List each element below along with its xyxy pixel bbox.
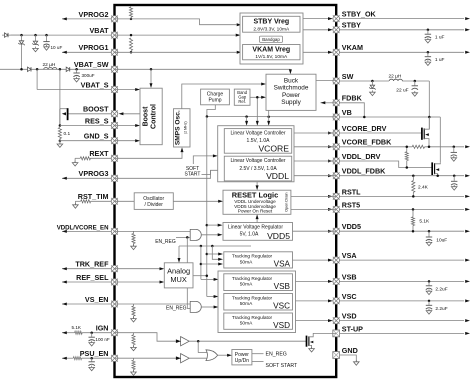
svg-text:1 uF: 1 uF xyxy=(435,57,445,63)
resistor REXT xyxy=(80,157,90,160)
resistor 5.1K pullup xyxy=(412,209,414,216)
arrow into buffer U4 xyxy=(176,356,181,360)
node dot 2.4K xyxy=(412,174,415,177)
svg-text:PSU_EN: PSU_EN xyxy=(80,349,109,358)
pin TRK_REF xyxy=(111,265,118,272)
svg-text:VSD: VSD xyxy=(273,321,290,330)
arrow VPROG3 xyxy=(62,177,67,180)
wire VKAM xyxy=(336,51,464,53)
wire VPROG2 input xyxy=(62,18,115,20)
arrow ST-UP xyxy=(465,332,470,335)
ground VDDL cap xyxy=(453,185,455,187)
pin VSB xyxy=(333,278,340,285)
wire PSU_EN input xyxy=(62,357,73,359)
node dot vdd5 a xyxy=(412,230,415,233)
pin VBAT_S xyxy=(111,86,118,93)
svg-text:ST-UP: ST-UP xyxy=(342,324,363,333)
resistor VPROG1 pullup xyxy=(130,34,133,37)
arrow into Boost Control top xyxy=(150,83,153,88)
svg-text:RST5: RST5 xyxy=(342,200,360,209)
arrow VCORE out xyxy=(465,145,470,148)
capacitor 2.2uF VSB xyxy=(428,281,430,285)
svg-text:TRK_REF: TRK_REF xyxy=(75,260,109,269)
pin RES_S xyxy=(111,122,118,129)
wire rail to vsc end xyxy=(207,296,214,298)
svg-text:VDD5: VDD5 xyxy=(267,231,290,241)
svg-text:Ref.: Ref. xyxy=(238,99,246,104)
box tracking outer xyxy=(218,271,296,333)
transistor Q2 channel xyxy=(423,128,425,139)
pin ST-UP xyxy=(333,330,340,337)
wire VDDL drain rail xyxy=(439,117,441,162)
wire RST_TIM xyxy=(91,200,115,202)
wire VSD xyxy=(336,320,464,322)
svg-text:SOFT START: SOFT START xyxy=(266,363,299,369)
wire VS_EN internal xyxy=(115,303,191,305)
wire VSC xyxy=(336,300,464,302)
svg-text:Linear Voltage Regulator: Linear Voltage Regulator xyxy=(228,225,283,231)
pin VDD5 xyxy=(333,228,340,235)
wire xyxy=(59,139,61,145)
arrow GND_S into boost xyxy=(135,139,140,142)
svg-text:22 µH: 22 µH xyxy=(389,74,402,80)
resistor 5.1K IGN xyxy=(75,331,83,334)
wire Q3 source xyxy=(435,174,438,176)
box VSA tracking xyxy=(224,252,293,268)
svg-text:2.8V/3.3V, 10mA: 2.8V/3.3V, 10mA xyxy=(253,26,290,32)
wire RST5 xyxy=(336,208,464,210)
wire GND_S internal xyxy=(115,140,136,142)
wire REXT internal xyxy=(115,152,183,159)
wire osc to reset xyxy=(173,200,218,202)
arrow into reset top xyxy=(256,185,259,190)
pin SW xyxy=(333,78,340,85)
transistor Q3 channel xyxy=(434,163,436,174)
svg-text:2.2uF: 2.2uF xyxy=(435,306,447,312)
divider resistor xyxy=(406,147,408,152)
wire VBAT input xyxy=(2,34,22,36)
pin VSD xyxy=(333,317,340,324)
arrow into STBY Vreg xyxy=(237,23,242,26)
pin VSC xyxy=(333,298,340,305)
transistor Q4 channel xyxy=(308,336,310,346)
svg-text:SMPS Osc.: SMPS Osc. xyxy=(175,110,182,145)
svg-text:Up/Dn: Up/Dn xyxy=(235,358,249,364)
wire VSB out xyxy=(293,280,330,282)
inductor L1 xyxy=(44,67,57,69)
sense resistor 0.1 xyxy=(58,128,61,139)
svg-text:VDDL/VCORE_EN: VDDL/VCORE_EN xyxy=(57,224,109,231)
svg-text:2.2uF: 2.2uF xyxy=(435,286,447,292)
wire bandgap to buck xyxy=(250,96,262,98)
svg-text:VSC: VSC xyxy=(273,302,290,311)
svg-text:GND_S: GND_S xyxy=(84,132,109,141)
wire Q3 drain xyxy=(435,162,441,164)
transistor Q2 gate bar xyxy=(421,128,423,140)
pin GND xyxy=(333,352,340,359)
transistor Q1 channel xyxy=(59,109,61,126)
wire GND_S xyxy=(60,140,115,142)
wire BOOST internal xyxy=(122,113,141,115)
svg-text:VPROG3: VPROG3 xyxy=(79,169,109,178)
wire VPROG3 input xyxy=(62,177,115,179)
wire dist to VSA2 xyxy=(212,246,218,259)
wire VPROG1 internal xyxy=(115,51,237,53)
wire controllers to reset xyxy=(256,182,258,186)
arrow FDBK into buck xyxy=(321,101,326,104)
AND gate U2 xyxy=(190,301,201,312)
svg-text:VBAT_S: VBAT_S xyxy=(81,80,109,89)
svg-text:Power On Reset: Power On Reset xyxy=(238,209,273,214)
ground for D3 xyxy=(35,47,37,49)
capacitor VDDL out xyxy=(453,176,455,181)
box STBY Vreg xyxy=(243,16,300,32)
arrow rail into VDD5 box xyxy=(218,224,223,227)
wire REF_SEL internal xyxy=(115,281,160,283)
svg-text:Power: Power xyxy=(282,92,301,99)
AND gate U1 xyxy=(190,229,201,240)
wire VSC out xyxy=(293,300,330,302)
arrow VKAM xyxy=(465,51,470,54)
node dot vsc xyxy=(428,300,431,303)
wire VSA xyxy=(336,259,464,261)
svg-text:VSA: VSA xyxy=(274,260,291,269)
ground psu pulldown xyxy=(133,370,135,372)
wire VKAM Vreg to VKAM xyxy=(300,51,329,53)
wire VDDL/VCORE_EN input xyxy=(62,230,115,232)
wire GND xyxy=(336,355,356,362)
wire VDD5 xyxy=(336,230,464,232)
svg-text:EN_REG: EN_REG xyxy=(266,352,287,358)
wire VS_EN input xyxy=(62,303,115,305)
arrow STBY_OK xyxy=(465,17,470,20)
arrow VDDL out xyxy=(465,174,470,177)
wire rail to vsa xyxy=(207,253,219,255)
transistor Q4 arrow xyxy=(310,341,313,344)
pin VPROG2 xyxy=(111,16,118,23)
pin RSTL xyxy=(333,193,340,200)
ground GND pin xyxy=(355,360,357,362)
svg-text:10 uF: 10 uF xyxy=(51,45,63,50)
resistor RST_TIM xyxy=(81,200,91,203)
zener D2 xyxy=(19,41,23,44)
buffer U3 xyxy=(181,337,190,346)
svg-text:Tracking Regulator: Tracking Regulator xyxy=(232,254,273,260)
resistor VPROG2 pullup xyxy=(129,7,132,17)
pin GND_S xyxy=(111,137,118,144)
diode D4 xyxy=(28,67,32,71)
wire buffer1 out xyxy=(189,340,306,342)
arrow gate1 into VDD5 box xyxy=(218,233,223,236)
svg-text:5.1K: 5.1K xyxy=(419,219,430,225)
wire VDD5 out xyxy=(293,230,337,232)
svg-text:300uF: 300uF xyxy=(82,73,95,78)
wire VSD out xyxy=(293,320,330,322)
wire RST5 out xyxy=(291,208,336,210)
wire FDBK xyxy=(336,103,364,117)
box SMPS Osc xyxy=(174,109,191,147)
resistor PSU_EN xyxy=(73,357,81,360)
arrow at VSC pin xyxy=(328,299,333,302)
arrow REF_SEL xyxy=(62,281,67,284)
wire xyxy=(75,200,80,202)
transistor Q3 arrow xyxy=(436,168,440,171)
arrow BOOST out xyxy=(119,112,124,115)
wire stub xyxy=(46,35,48,42)
pin VBAT xyxy=(111,32,118,39)
node dot rail vdd5 xyxy=(206,224,209,227)
wire stub xyxy=(35,35,37,41)
box VSD tracking xyxy=(224,313,293,329)
node dot bg xyxy=(256,96,259,99)
arrow STBY xyxy=(465,28,470,31)
wire bandgap down xyxy=(256,97,258,121)
wire STBY xyxy=(336,29,464,31)
ground PSU_EN cap xyxy=(91,366,93,368)
arrow VBAT_S into boost xyxy=(135,88,140,91)
node dot divider bottom xyxy=(406,166,409,169)
arrow into mux top xyxy=(178,258,181,263)
arrow gate2 into tracking xyxy=(214,306,219,309)
buffer U4 xyxy=(181,354,190,363)
node dot xyxy=(75,68,78,71)
wire en_reg2 xyxy=(187,308,190,310)
arrow VPROG1 xyxy=(62,51,67,54)
wire dist line xyxy=(179,245,251,247)
node dot VKAM xyxy=(427,51,430,54)
ground 22uF xyxy=(414,91,416,93)
arrow RSTL xyxy=(465,195,470,198)
ground VKAM cap xyxy=(427,60,429,62)
wire IGN input xyxy=(62,332,75,334)
node dot vcore cap xyxy=(453,146,456,149)
pin VBAT_SW xyxy=(111,66,118,73)
arrow rail into VSA xyxy=(218,253,223,256)
arrow PSU_EN xyxy=(62,357,67,360)
svg-text:VPROG1: VPROG1 xyxy=(79,43,109,52)
arrow into VSA3 xyxy=(218,263,223,266)
wire SMPS to buck xyxy=(182,84,262,109)
arrow VSC xyxy=(465,299,470,302)
svg-text:FDBK: FDBK xyxy=(342,94,363,103)
capacitor 1uF VKAM xyxy=(427,52,429,56)
svg-text:VSB: VSB xyxy=(274,282,291,291)
svg-text:MUX: MUX xyxy=(170,275,186,284)
pin PSU_EN xyxy=(111,355,118,362)
svg-text:VCORE: VCORE xyxy=(258,144,289,154)
wire STBY Vreg to STBY xyxy=(300,29,329,31)
wire VPROG3 internal xyxy=(115,170,220,178)
wire VSA out xyxy=(293,259,330,261)
svg-text:10uF: 10uF xyxy=(436,237,447,243)
wire Q2 drain xyxy=(424,117,429,129)
arrow REF_SEL into mux xyxy=(160,281,165,284)
node dot rstl xyxy=(412,195,415,198)
box Analog MUX xyxy=(164,263,193,288)
node dot VB rail xyxy=(428,116,431,119)
wire gate1 out xyxy=(201,234,218,236)
box VSB tracking xyxy=(224,274,293,291)
pin VKAM xyxy=(333,49,340,56)
arrow at STBY pin xyxy=(328,28,333,31)
OR gate U5 xyxy=(206,350,218,361)
ground for C1 xyxy=(46,45,48,47)
svg-text:VSA: VSA xyxy=(342,251,357,260)
pin VS_EN xyxy=(111,301,118,308)
arrow IGN xyxy=(62,331,67,334)
wire to OR gate xyxy=(197,341,199,352)
pin IGN xyxy=(111,329,118,336)
node dot q3 xyxy=(436,174,439,177)
wire RES_S xyxy=(60,125,115,127)
node dot RES_S xyxy=(59,124,62,127)
ground REXT xyxy=(74,161,76,163)
ground C2 xyxy=(76,77,78,79)
svg-text:VDDL_FDBK: VDDL_FDBK xyxy=(342,167,386,176)
box controllers outer xyxy=(218,126,294,182)
svg-text:Linear Voltage Controller: Linear Voltage Controller xyxy=(230,158,285,164)
ground RST_TIM xyxy=(74,203,76,205)
capacitor VCORE out xyxy=(453,147,455,152)
capacitor 22uF xyxy=(414,81,416,85)
arrow into controllers b xyxy=(256,121,259,126)
arrow VSA xyxy=(465,259,470,262)
wire VBAT_SW rail xyxy=(0,68,115,70)
ground GND_S xyxy=(59,142,61,144)
wire FDBK into buck xyxy=(321,102,337,104)
svg-text:STBY_OK: STBY_OK xyxy=(342,10,377,19)
box Band Gap Ref xyxy=(234,89,250,105)
svg-text:VDDL_DRV: VDDL_DRV xyxy=(342,152,381,161)
svg-text:BOOST: BOOST xyxy=(83,105,109,114)
ground en pulldown xyxy=(133,244,135,246)
pin VDDL_DRV xyxy=(333,158,340,165)
svg-text:EN_REG: EN_REG xyxy=(155,239,176,245)
arrow VS_EN xyxy=(62,303,67,306)
transistor Q3 gate bar xyxy=(431,162,433,175)
svg-text:VSB: VSB xyxy=(342,272,357,281)
wire vbat_sw to buck xyxy=(289,68,291,71)
node dot xyxy=(20,68,23,71)
svg-text:RES_S: RES_S xyxy=(85,116,109,125)
pin VSA xyxy=(333,257,340,264)
arrow at RST5 pin xyxy=(328,208,333,211)
svg-text:VBAT_SW: VBAT_SW xyxy=(74,60,109,69)
zener D3 xyxy=(33,41,37,44)
svg-text:Supply: Supply xyxy=(281,99,301,106)
wire VB bus xyxy=(207,116,336,118)
box VSC tracking xyxy=(224,294,293,311)
svg-text:RSTL: RSTL xyxy=(342,187,361,196)
svg-text:VDD5: VDD5 xyxy=(342,222,361,231)
wire VBAT internal xyxy=(115,34,236,36)
wire VDDL_FDBK xyxy=(336,175,464,177)
wire internal supply rail xyxy=(206,117,208,297)
arrow into VSB outer xyxy=(214,278,219,281)
arrow into controllers a xyxy=(245,121,248,126)
svg-text:50mA: 50mA xyxy=(240,301,253,307)
node VBAT junction dots xyxy=(20,34,23,37)
pin VPROG1 xyxy=(111,49,118,56)
wire to boost control xyxy=(150,69,152,83)
arrow into buffer U3 xyxy=(176,339,181,343)
node dot ign out xyxy=(197,340,200,343)
arrow at VKAM pin xyxy=(328,51,333,54)
svg-text:VDDL: VDDL xyxy=(266,171,289,181)
wire VB rail down xyxy=(428,81,430,129)
node dot bus left xyxy=(206,115,209,118)
wire xyxy=(75,157,80,159)
wire soft start B xyxy=(202,174,211,176)
arrow at VSD pin xyxy=(328,319,333,322)
arrow SMPS into buck xyxy=(261,83,266,86)
svg-text:Tracking Regulator: Tracking Regulator xyxy=(232,276,273,282)
ground Q4 xyxy=(311,347,313,349)
svg-text:VSC: VSC xyxy=(342,292,357,301)
capacitor 10uF xyxy=(428,231,430,236)
ground VSC cap xyxy=(428,309,430,311)
svg-text:50mA: 50mA xyxy=(240,321,253,327)
wire vsb xyxy=(201,278,214,280)
wire vsa3 xyxy=(201,263,219,265)
arrow at VSA pin xyxy=(328,259,333,262)
transistor Q2 arrow xyxy=(425,133,429,136)
node dot vsb xyxy=(428,280,431,283)
node dot rail vsa xyxy=(206,253,209,256)
wire RSTL out xyxy=(291,195,336,197)
wire Q4 source xyxy=(309,345,312,348)
box Charge Pump xyxy=(201,89,230,105)
node dot en_reg xyxy=(186,236,189,239)
capacitor C2 300uF xyxy=(76,69,78,73)
wire zener drop to VBAT_SW line xyxy=(21,35,23,69)
svg-text:Switchmode: Switchmode xyxy=(274,85,309,92)
wire Q2 source xyxy=(424,139,429,147)
wire to VBAT_S xyxy=(36,69,38,89)
svg-text:50mA: 50mA xyxy=(240,282,253,288)
wire IGN internal xyxy=(115,333,178,342)
ground vs_en pulldown xyxy=(133,317,135,319)
node dot IGN xyxy=(90,331,93,334)
svg-text:Pump: Pump xyxy=(208,97,221,103)
arrow at VDDL_DRV pin xyxy=(328,160,333,163)
capacitor 100nF xyxy=(91,333,93,337)
wire buck bottom down xyxy=(268,110,270,121)
arrow TRK_REF xyxy=(62,267,67,270)
node dot PSU_EN xyxy=(90,357,93,360)
box VCORE controller xyxy=(224,129,291,154)
wire vdd5 to reset xyxy=(256,219,258,223)
svg-text:SW: SW xyxy=(342,72,354,81)
arrow RST5 xyxy=(465,208,470,211)
svg-text:VKAM: VKAM xyxy=(342,43,363,52)
wire RSTL xyxy=(336,195,464,197)
pin VCORE_FDBK xyxy=(333,143,340,150)
svg-text:VS_EN: VS_EN xyxy=(85,295,109,304)
svg-text:REXT: REXT xyxy=(89,149,109,158)
svg-text:(2 MHz): (2 MHz) xyxy=(184,121,188,134)
pin RST5 xyxy=(333,206,340,213)
arrow VSB xyxy=(465,280,470,283)
ground 10uF xyxy=(428,241,430,243)
node dot post-L xyxy=(414,80,417,83)
capacitor C1 xyxy=(43,41,49,43)
svg-text:VCORE_DRV: VCORE_DRV xyxy=(342,124,387,133)
svg-text:VPROG2: VPROG2 xyxy=(79,10,109,19)
node dot xyxy=(428,146,431,149)
wire dist to VSA3 and VSB xyxy=(200,246,202,279)
svg-text:VCORE_FDBK: VCORE_FDBK xyxy=(342,138,392,147)
